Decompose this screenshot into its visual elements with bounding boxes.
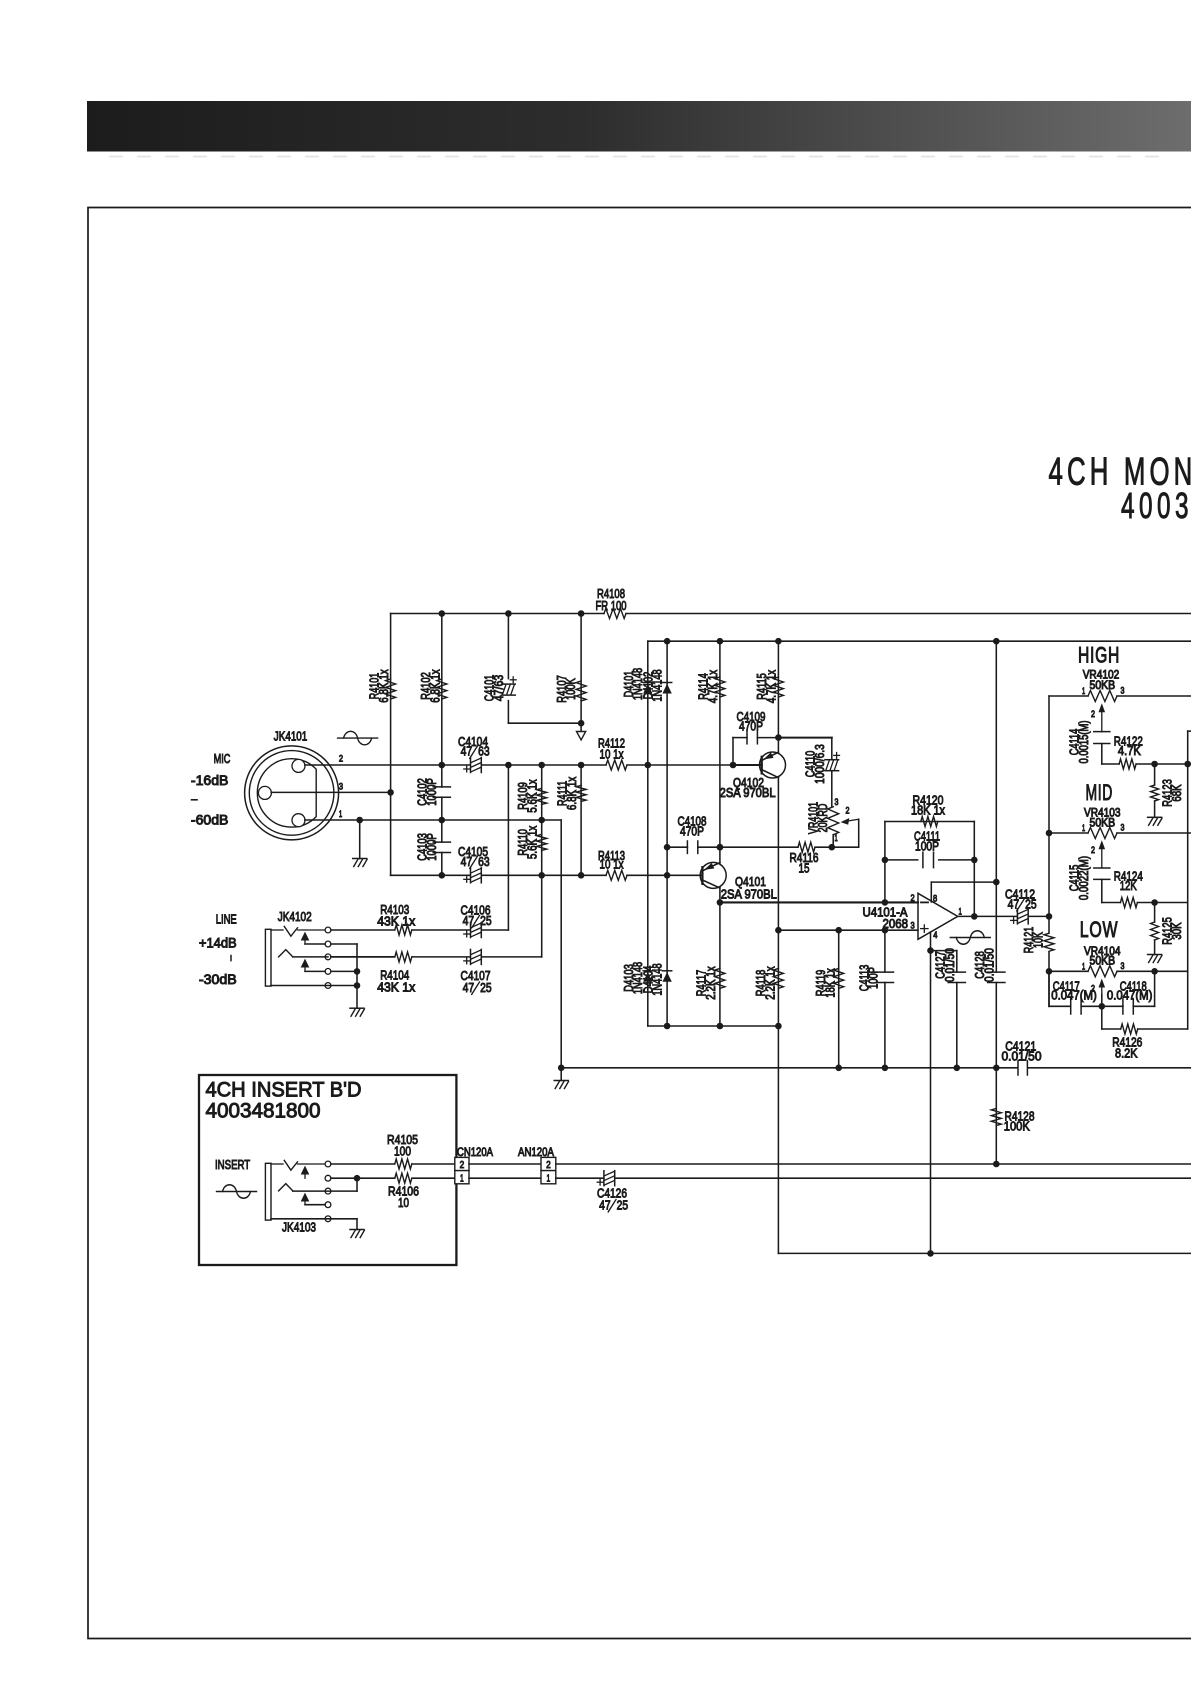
capacitor C4106 (series electrolytic) — [470, 923, 472, 938]
resistor R4104 — [395, 952, 412, 962]
wire: C4109 row y=737.6 — [733, 737, 747, 739]
svg-text:3: 3 — [835, 797, 839, 807]
JK4102 switch arrow 1 — [301, 932, 310, 941]
svg-text:0.01/50: 0.01/50 — [981, 948, 996, 982]
svg-text:10 1x: 10 1x — [600, 747, 624, 762]
node: ground rail dots — [558, 1065, 565, 1072]
resistor R4108 — [604, 609, 626, 619]
svg-text:0.01/50: 0.01/50 — [1002, 1049, 1042, 1064]
wire: Q4102 base tap column x=733 — [732, 738, 734, 765]
arrow to negative supply (open triangle) — [580, 723, 582, 731]
wire: C4117/C4118 row y=1006.3 — [1049, 1005, 1071, 1007]
ground symbol at XLR pin1 — [353, 858, 367, 860]
wire: C4115 to R4124 row — [1101, 879, 1103, 902]
svg-text:1: 1 — [1082, 686, 1085, 696]
resistor R4107 (vertical) — [576, 681, 586, 701]
svg-text:50KB: 50KB — [1090, 818, 1116, 830]
wire: R4122 row to edge — [1136, 763, 1191, 765]
potentiometer VR4104 row y=971.3 — [1049, 970, 1088, 972]
diode D4103 — [643, 970, 652, 972]
op-amp minus sign — [921, 901, 928, 903]
potentiometer VR4101 — [828, 807, 839, 835]
svg-text:100: 100 — [394, 1144, 411, 1159]
wire: insert row1 y=1164 — [331, 1163, 395, 1165]
svg-text:0.047(M): 0.047(M) — [1107, 988, 1153, 1003]
svg-text:+14dB: +14dB — [199, 936, 237, 951]
JK4102 ring contact chevron — [279, 950, 293, 957]
resistor R4116 — [798, 842, 815, 852]
ground symbol at JK4102 — [350, 1007, 364, 1009]
connector CN120A cells — [455, 1157, 469, 1170]
wire: Q4101 collector row to op-amp pin2 y=902.4 — [720, 901, 918, 903]
svg-text:HIGH: HIGH — [1078, 643, 1120, 668]
node: LOW row dots — [1151, 968, 1158, 975]
resistor R4111 (vertical) — [576, 785, 586, 801]
resistor R4110 (vertical) — [537, 834, 547, 850]
op-amp U4101-A triangle — [918, 893, 958, 939]
svg-text:1000P: 1000P — [424, 833, 439, 861]
node: pin8 to supply column — [993, 879, 1000, 886]
svg-text:4003481800: 4003481800 — [206, 1099, 321, 1123]
wire: R4128 column — [995, 1068, 997, 1164]
svg-text:1N4148: 1N4148 — [650, 963, 665, 995]
svg-text:CN120A: CN120A — [457, 1145, 493, 1159]
wire: AN row 1 out y=1178.2 with C4126 — [556, 1177, 604, 1179]
capacitor C4115 — [1094, 867, 1110, 869]
wire: CN to AN row2 — [469, 1177, 541, 1179]
svg-text:1: 1 — [339, 809, 342, 820]
resistor R4113 — [606, 870, 627, 880]
svg-text:6.8K 1x: 6.8K 1x — [376, 669, 391, 703]
svg-text:43K 1x: 43K 1x — [377, 980, 415, 995]
VR4103 wiper arrow — [1099, 840, 1106, 849]
wire: R4126 row y=1029 — [1102, 1028, 1121, 1030]
resistor R4101 (vertical) — [386, 679, 396, 699]
wire: LINE row2 y=944 — [305, 943, 325, 945]
ground symbol on rail — [554, 1080, 568, 1082]
wire: pin1 ground stub — [359, 820, 361, 859]
capacitor C4113 — [876, 971, 893, 973]
svg-text:2.2K 1x: 2.2K 1x — [762, 966, 777, 1000]
resistor R4123 (vertical) — [1151, 785, 1159, 801]
node: Q4101 emitter row dot — [717, 844, 724, 851]
connector JK4101 XLR inner D outline — [257, 759, 316, 827]
node: EQ column dots — [1046, 830, 1053, 837]
wire: column R4102/C4102/C4103 x=441.8 — [441, 614, 443, 788]
svg-text:18K 1x: 18K 1x — [911, 803, 945, 818]
capacitor C4127 column — [956, 983, 958, 1068]
svg-text:5.6K 1x: 5.6K 1x — [524, 779, 539, 813]
svg-text:4.7K 1x: 4.7K 1x — [705, 669, 720, 703]
wire: R4125 column — [1154, 903, 1156, 923]
wire: AN row 2 out y=1164 — [556, 1163, 1191, 1165]
capacitor C4111 — [922, 852, 924, 867]
svg-text:10K: 10K — [1031, 932, 1046, 948]
svg-text:25: 25 — [617, 1197, 629, 1212]
ground symbol at JK4103 — [350, 1229, 364, 1231]
JK4103 contact circles — [325, 1161, 331, 1167]
wire: LINE row1 (tip) y=930 — [331, 929, 395, 931]
node: C4111 row dots — [882, 857, 889, 864]
wire: wiper to R4116 row — [858, 819, 860, 847]
capacitor C4128 — [988, 971, 1005, 973]
svg-text:2068: 2068 — [883, 916, 909, 931]
resistor R4117 (vertical) — [715, 968, 725, 988]
wire: insert row4 — [305, 1204, 325, 1206]
schematic outer border box — [88, 208, 1191, 1639]
wire: XLR pin1 ground column x=561.2 — [560, 820, 562, 1068]
resistor R4103 — [395, 925, 412, 935]
svg-text:-16dB: -16dB — [191, 773, 229, 788]
svg-text:2SA 970BL: 2SA 970BL — [720, 785, 776, 800]
svg-text:25: 25 — [1025, 896, 1037, 911]
node: plus row dots — [775, 927, 782, 934]
wire: XLR pin1 row y=820 — [305, 819, 561, 821]
transistor Q4101 — [700, 862, 726, 888]
wire: CN to AN row1 — [469, 1163, 541, 1165]
wire: op-amp output y=916.4 — [958, 915, 1018, 917]
svg-text:18K 1x: 18K 1x — [823, 968, 838, 998]
svg-text:FR 100: FR 100 — [596, 598, 627, 613]
svg-text:47/63: 47/63 — [491, 675, 506, 701]
svg-text:0.0015(M): 0.0015(M) — [1076, 720, 1091, 763]
connector AN120A cells — [541, 1157, 556, 1170]
wire: pin8 supply stub — [930, 882, 932, 902]
op-amp plus sign — [921, 928, 928, 930]
node: rail2 junction dots — [664, 638, 671, 645]
svg-text:LINE: LINE — [216, 912, 237, 927]
svg-text:1: 1 — [835, 833, 838, 843]
feedback network wires — [884, 822, 886, 903]
resistor R4122 — [1119, 759, 1136, 769]
potentiometer VR4103 row y=833 — [1049, 832, 1088, 834]
svg-text:2: 2 — [546, 1159, 551, 1171]
resistor R4125 (vertical) — [1151, 922, 1159, 940]
svg-text:1: 1 — [1082, 823, 1085, 833]
node: top rail junction dots — [439, 610, 446, 617]
connector JK4101 XLR outer circles — [245, 746, 339, 840]
wire: insert row3 to row2 — [293, 1190, 357, 1192]
svg-text:2SA 970BL: 2SA 970BL — [721, 887, 777, 902]
svg-text:3: 3 — [1121, 961, 1125, 971]
svg-text:8.2K: 8.2K — [1115, 1046, 1138, 1061]
resistor R4102 (vertical) — [437, 679, 447, 699]
connector JK4102 jack bracket — [265, 929, 271, 986]
wire: column R4101 x=390.6 — [390, 614, 392, 876]
capacitor C4103 — [433, 841, 450, 843]
wire: C4113 column x=884.9 — [884, 930, 886, 972]
svg-text:2.2K 1x: 2.2K 1x — [703, 966, 718, 1000]
resistor R4119 (vertical) — [834, 968, 844, 988]
JK4102 contact circles — [325, 927, 331, 933]
svg-text:1: 1 — [460, 1172, 464, 1184]
svg-text:AN120A: AN120A — [518, 1145, 554, 1159]
wire: rail ground stub — [560, 1068, 562, 1081]
svg-text:2: 2 — [460, 1159, 465, 1171]
capacitor C4112 (series electrolytic) on output row — [1016, 909, 1018, 924]
label dash range — [192, 799, 198, 801]
sine symbol in insert board — [217, 1191, 257, 1193]
resistor R4120 — [921, 817, 938, 827]
diode D4104 — [663, 970, 672, 972]
svg-text:470P: 470P — [739, 719, 763, 734]
scan artifact dashes under bar — [110, 156, 1160, 158]
svg-text:470P: 470P — [680, 824, 704, 839]
capacitor C4117 — [1070, 999, 1072, 1014]
node: pin4 column to bottom rail — [927, 1250, 934, 1257]
node: wiper cap row dot — [1099, 1003, 1106, 1010]
JK4103 ring contact chevron — [279, 1184, 293, 1191]
svg-text:0.047(M): 0.047(M) — [1051, 988, 1097, 1003]
JK4103 switch arrow 2 — [301, 1193, 310, 1202]
node: pin4 junction — [927, 947, 934, 954]
capacitor C4101 (electrolytic) — [502, 683, 516, 685]
resistor R4126 — [1121, 1024, 1138, 1034]
node: row2 junction — [354, 1175, 361, 1182]
sine symbol near XLR — [338, 737, 378, 739]
capacitor C4108 — [686, 841, 688, 853]
resistor R4118 (vertical) — [773, 968, 783, 988]
ground symbol below R4123 — [1148, 816, 1162, 818]
svg-text:15: 15 — [799, 861, 810, 876]
capacitor C4126 (series electrolytic) — [603, 1171, 605, 1186]
wire: R4119 column x=838.7 — [838, 930, 840, 1068]
resistor R4105 — [395, 1159, 412, 1169]
JK4103 switch arrow 1 — [301, 1166, 310, 1175]
svg-text:6.8K 1x: 6.8K 1x — [564, 776, 579, 810]
svg-text:3: 3 — [1121, 823, 1125, 833]
wire: pin4 to C4127 — [931, 950, 957, 952]
svg-text:63: 63 — [478, 744, 490, 759]
svg-text:20KRD: 20KRD — [815, 804, 830, 833]
resistor R4128 (vertical) — [991, 1109, 1001, 1126]
capacitor C4114 — [1094, 731, 1110, 733]
node: pin3 to R4101 column — [387, 789, 394, 796]
wire: C4110/VR4101 column x=831.8 — [831, 738, 833, 760]
wire: column R4115/Q4102 x=778.4 — [777, 641, 779, 752]
svg-text:2: 2 — [1091, 709, 1095, 719]
wire: MIC bottom row y=875.3 — [391, 874, 471, 876]
resistor R4121 (vertical) — [1044, 933, 1054, 951]
wire: column C4101 x=508.4 upper — [507, 614, 509, 679]
svg-text:6.8K 1x: 6.8K 1x — [427, 669, 442, 703]
JK4102 switch arrow 2 — [301, 959, 310, 968]
capacitor C4110 (electrolytic) — [825, 759, 839, 761]
svg-text:30K: 30K — [1169, 922, 1184, 939]
sine symbol near op-amp — [950, 937, 990, 939]
node: output dot — [971, 913, 978, 920]
svg-text:INSERT: INSERT — [215, 1157, 250, 1172]
svg-text:2: 2 — [1091, 845, 1095, 855]
svg-text:400348: 400348 — [1121, 485, 1191, 526]
svg-text:JK4102: JK4102 — [278, 909, 312, 924]
svg-text:2: 2 — [339, 754, 343, 765]
wire: column x=508.4 lower (pin2 to C4106 row) — [507, 765, 509, 930]
wire: V- bottom rail y=1253.4 — [778, 1252, 1191, 1254]
svg-text:10 1x: 10 1x — [600, 857, 624, 872]
node: pin1 row dots — [356, 817, 363, 824]
svg-text:8: 8 — [933, 894, 937, 905]
node: C4108 row dots — [664, 844, 671, 851]
svg-text:12K: 12K — [1120, 878, 1137, 893]
resistor R4106 — [395, 1173, 412, 1183]
node: R4128 to AN row 2 — [993, 1161, 1000, 1168]
wire: column R4111 x=581.1 lower — [580, 765, 582, 875]
VR4104 wiper arrow — [1099, 979, 1106, 988]
svg-text:100K: 100K — [563, 678, 578, 700]
wire: column D4101/D4103 x=647.8 — [647, 641, 649, 1026]
svg-text:0.01/50: 0.01/50 — [942, 948, 957, 982]
svg-text:MID: MID — [1086, 780, 1114, 805]
node: R4122 row dots — [1151, 761, 1158, 768]
insert board outline box — [199, 1075, 456, 1265]
svg-text:4.7K 1x: 4.7K 1x — [763, 669, 778, 703]
svg-text:JK4103: JK4103 — [282, 1220, 316, 1235]
wire: R4123 column — [1154, 764, 1156, 785]
wire: C4108/R4116 row y=847.2 — [667, 846, 687, 848]
wire: XLR pin2 row y=765 — [305, 764, 471, 766]
capacitor C4107 (series electrolytic) — [470, 949, 472, 964]
wire: plus input row y=930.2 — [778, 929, 918, 931]
wire: jack ground stub — [356, 986, 358, 1009]
svg-text:50KB: 50KB — [1090, 680, 1116, 692]
svg-text:JK4101: JK4101 — [274, 729, 308, 744]
svg-text:0.0022(M): 0.0022(M) — [1076, 856, 1091, 900]
JK4102 tip contact chevron — [271, 929, 283, 931]
wire: LINE row3 (ring) y=956.9 — [293, 956, 328, 958]
svg-text:LOW: LOW — [1080, 917, 1119, 942]
svg-text:1000P: 1000P — [424, 778, 439, 806]
diode D4101 — [643, 682, 652, 684]
node: pin2 row dots — [439, 762, 446, 769]
ground symbol below R4125 — [1148, 954, 1162, 956]
wire: diode bottom row y=1026 — [667, 1025, 778, 1027]
JK4103 tip contact chevron — [271, 1163, 283, 1165]
svg-text:MIC: MIC — [214, 751, 231, 766]
wire: insert row2 y=1178.2 — [331, 1177, 395, 1179]
svg-text:43K 1x: 43K 1x — [377, 914, 415, 929]
transistor Q4102 — [760, 752, 786, 778]
node: bottom row dots — [439, 872, 446, 879]
svg-text:3: 3 — [911, 920, 915, 931]
wire: LINE row5 (sleeve) y=985.5 — [271, 985, 357, 987]
wire: column R4114/Q4101 x=719.9 — [719, 641, 721, 863]
svg-text:100K: 100K — [1004, 1119, 1030, 1134]
wire: EQ right bus column x=1187.7 — [1187, 731, 1189, 1029]
wire: EQ left column x=1049 — [1048, 696, 1050, 933]
diode D4102 — [663, 682, 672, 684]
capacitor C4121 on ground rail — [1017, 1061, 1019, 1075]
node: emitter/C4109/C4110 junction — [775, 734, 782, 741]
svg-text:68K: 68K — [1169, 784, 1184, 801]
wire: pin4 column x=930.5 — [930, 932, 932, 1253]
wire: supply/C4128 column x=996.3 — [995, 641, 997, 972]
resistor R4124 — [1120, 898, 1137, 908]
svg-text:100P: 100P — [915, 839, 939, 854]
capacitor C4104 (series electrolytic) — [470, 758, 472, 773]
wire: C4114 to R4122 row — [1101, 744, 1103, 764]
svg-text:100P: 100P — [866, 967, 881, 989]
capacitor C4118 — [1122, 999, 1124, 1014]
wire: wiper to C4117/C4118 row — [1101, 995, 1103, 1030]
VR4102 wiper arrow — [1099, 703, 1106, 712]
svg-text:-60dB: -60dB — [191, 813, 229, 828]
svg-text:3: 3 — [1121, 686, 1125, 696]
wire: VR4101 bottom lead — [832, 835, 834, 848]
node: R4124 row dot — [1151, 899, 1158, 906]
svg-text:4: 4 — [933, 930, 937, 941]
wire: second rail y=641.2 — [648, 640, 1191, 642]
svg-text:1: 1 — [547, 1172, 551, 1184]
svg-text:-30dB: -30dB — [199, 972, 237, 987]
svg-text:1000/6.3: 1000/6.3 — [812, 744, 827, 784]
resistor R4115 (vertical) — [773, 677, 783, 697]
node: feedback tap on minus row — [882, 899, 889, 906]
node: C4112 to EQ column — [1046, 913, 1053, 920]
potentiometer VR4102 row y=696 — [1049, 695, 1088, 697]
svg-text:10: 10 — [398, 1195, 409, 1210]
capacitor C4109 — [746, 731, 748, 743]
svg-text:50KB: 50KB — [1090, 956, 1116, 968]
wire: insert row5 sleeve to ground — [271, 1218, 357, 1220]
wire: XLR pin3 stub y=792.4 — [271, 791, 390, 793]
node: jack ground dots — [354, 968, 361, 975]
resistor R4112 — [606, 760, 627, 770]
label range tick — [230, 956, 232, 961]
svg-text:25: 25 — [480, 980, 492, 995]
connector JK4103 jack bracket — [265, 1163, 271, 1220]
svg-text:4.7K: 4.7K — [1118, 743, 1141, 758]
svg-text:5.6K 1x: 5.6K 1x — [524, 825, 539, 859]
svg-text:3: 3 — [339, 782, 343, 793]
capacitor C4105 (series electrolytic) — [470, 868, 472, 883]
node: Q4101 collector dot — [717, 899, 724, 906]
svg-text:25: 25 — [480, 913, 492, 928]
node: C4101/R4107 junction — [578, 720, 585, 727]
capacitor C4102 — [433, 786, 450, 788]
wire: column R4109/R4110 x=541.7 — [541, 765, 543, 957]
wire: ground rail y=1067.8 — [561, 1067, 1017, 1069]
wire: R4124 row to right column — [1137, 902, 1187, 904]
connector JK4101 pin circles — [292, 759, 305, 772]
node: diode row dots — [664, 1023, 671, 1030]
resistor R4114 (vertical) — [715, 677, 725, 697]
VR4101 wiper arrow — [846, 819, 859, 821]
wire: column R4107 x=581.1 upper — [580, 614, 582, 724]
resistor R4109 (vertical) — [537, 788, 547, 804]
svg-text:2: 2 — [911, 893, 915, 904]
wire: top supply rail y=613.5 — [391, 613, 604, 615]
svg-text:1: 1 — [1082, 961, 1085, 971]
wire: column D4102/D4104 x=667.1 — [666, 641, 668, 1026]
svg-text:63: 63 — [478, 854, 490, 869]
wire: LINE row4 y=971.4 — [305, 970, 325, 972]
svg-text:1N4148: 1N4148 — [650, 669, 665, 701]
svg-text:2: 2 — [846, 806, 850, 816]
